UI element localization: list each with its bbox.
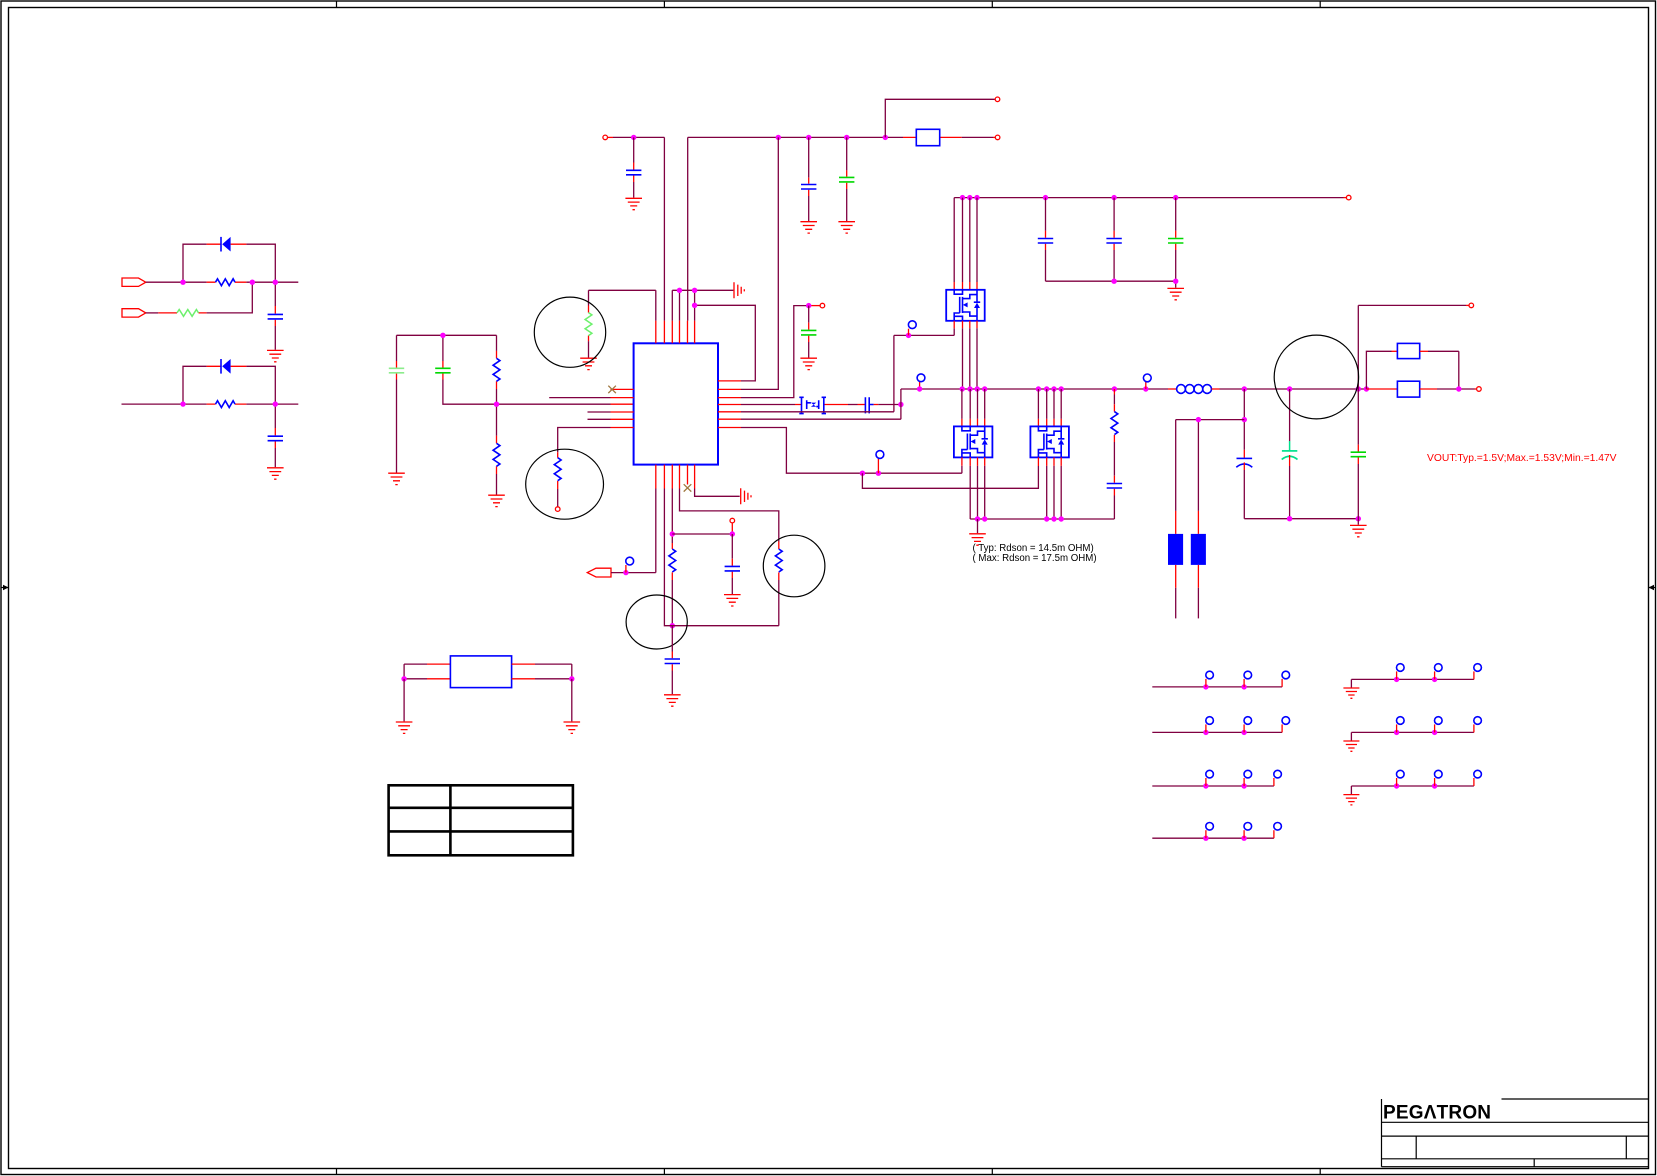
terminal 12V rail (1346, 195, 1351, 200)
wire Q1 gate pin down (953, 321, 955, 329)
wire analog ground run (672, 290, 733, 320)
ground (388, 473, 405, 484)
ground (1167, 288, 1184, 299)
ground (267, 350, 284, 361)
inductor L1 (1177, 385, 1212, 394)
wire tap to bulk caps (1176, 420, 1245, 511)
terminal bypass (820, 303, 825, 308)
wire M1 to C9 (848, 404, 858, 406)
wire diode D2 loop left (183, 366, 207, 404)
ground FB1 right (571, 679, 573, 722)
ground (625, 198, 642, 209)
filter component FB1 box (404, 663, 427, 665)
chassis ground fence top (734, 282, 744, 298)
resistor R12 box (1397, 343, 1419, 358)
testpoint Q1 gate (908, 329, 910, 336)
jumper row L1 (1152, 686, 1282, 688)
resistor R13 box (1366, 388, 1397, 390)
IC U1 top pin stubs (656, 321, 695, 344)
wire COMP loop (664, 489, 778, 626)
capacitor C1 (274, 282, 276, 306)
wire stub pin SS (549, 397, 610, 399)
capacitor C12 (green) (1175, 198, 1177, 231)
revision table (389, 785, 573, 855)
DNI circle around R11 (763, 535, 825, 597)
ground FB1 left (403, 679, 405, 722)
open terminal below R6 (555, 507, 560, 512)
wire output return bus (1244, 518, 1358, 520)
right border center arrow (1649, 587, 1656, 589)
capacitor C15 (671, 626, 673, 652)
wire SW bus to Q2 drains (962, 389, 985, 419)
transistor M1 (series mosfet symbol) (799, 397, 826, 413)
ground (488, 495, 505, 506)
wire arrow to EN pin (611, 489, 656, 573)
ground (664, 695, 681, 706)
snubber resistor R9 (1113, 389, 1115, 395)
jumper row L3 (1152, 785, 1274, 787)
capacitor C11 (1113, 198, 1115, 231)
wire Q3 sources to PGND bus (1047, 457, 1062, 466)
resistor R10 (671, 543, 673, 549)
wire Q1 sources to SW bus (963, 321, 978, 329)
IC U1 right pin stubs (718, 381, 741, 428)
input port connector P2 (122, 309, 146, 317)
IC U1 left pin stubs (611, 389, 634, 427)
wire Q3 gate stub (1037, 457, 1039, 466)
resistor R1 (207, 281, 247, 283)
testpoint SW (919, 382, 921, 389)
wire BOOT pin riser (741, 389, 901, 419)
wire diode D1 loop left (183, 244, 207, 282)
wire stub pin B (588, 418, 611, 420)
terminal VCC rail left (603, 135, 608, 140)
capacitor C9 (series) (865, 397, 873, 413)
resistor R6 in DNI circle (557, 452, 559, 489)
wire R3 node (246, 403, 298, 405)
wire VOUT top feed (1358, 304, 1466, 306)
wire VCC rail left segment (608, 136, 614, 138)
node dots cluster (440, 333, 445, 338)
ground PGND (977, 519, 979, 533)
transistor Q2 (dual mosfet pack) (954, 426, 993, 457)
capacitor C18 (green) (1357, 305, 1359, 444)
diode D2 (207, 365, 247, 367)
wire C9 to SW node (874, 404, 879, 406)
wire 12V rail (954, 197, 1343, 199)
ground (800, 358, 817, 369)
resistor R7 (green) in DNI circle (588, 290, 590, 305)
border zone ticks bottom (337, 1169, 1321, 1175)
resistor R8 box (903, 136, 962, 138)
ground (580, 358, 597, 369)
transistor Q3 (dual mosfet pack) (1030, 426, 1069, 457)
DNI circle around R7 (534, 297, 605, 367)
wire bottom AGND pin to fence (695, 489, 740, 497)
output arrow connector (587, 568, 611, 577)
resistor R3 (207, 403, 247, 405)
capacitor C3 (green) (396, 335, 398, 361)
svg-text:PEGΛTRON: PEGΛTRON (1383, 1103, 1491, 1124)
capacitor C16 (polarized) (1243, 450, 1245, 458)
wire FB branch to terminal and C14 (672, 533, 732, 535)
wire diode D1 loop right (246, 244, 275, 282)
ground output (1350, 525, 1367, 536)
resistor R5 lower (496, 404, 498, 436)
wire R7 to AGND pin (589, 290, 656, 320)
IC U1 bottom pin stubs (656, 465, 695, 489)
capacitor C4 (green) (442, 335, 444, 361)
ground (838, 222, 855, 233)
wire pin694 branch to right pin loop (695, 305, 756, 381)
jumper row R3 (1351, 786, 1474, 794)
node dots row2 (180, 401, 185, 406)
chassis ground fence bottom (741, 488, 751, 504)
resistor R11 in DNI circle (778, 542, 780, 581)
node dots row1 (180, 280, 185, 285)
wire P2 to R2 (146, 312, 159, 314)
border zone ticks top (337, 1, 1321, 8)
SW bus node dots (960, 386, 965, 391)
wire sense resistor upper branch (1366, 351, 1391, 389)
terminal VOUT sense (1477, 387, 1482, 392)
wire VCC filter rail (397, 334, 497, 336)
jumper row R1 (1351, 679, 1474, 687)
wire branch to Q3 gate (862, 466, 1038, 488)
wire Q2 sources to PGND bus (970, 457, 985, 466)
bulk capacitor CB2 (solid) (1197, 511, 1199, 534)
ground (800, 222, 817, 233)
capacitor C2 (274, 404, 276, 428)
diode D1 (207, 243, 247, 245)
jumper row L4 (1152, 837, 1274, 839)
wire sense tap down (1243, 389, 1245, 450)
wire FB pin chain down (671, 489, 673, 544)
wire stub pin A (588, 411, 611, 413)
wire rail to IC pin EN (741, 137, 778, 389)
wire Q2 gate stub (961, 457, 963, 465)
capacitor C5 (633, 137, 635, 162)
wire R8 to terminal (962, 136, 993, 138)
wire LGATE pin down to low gates (741, 428, 962, 474)
capacitor C7 (green) (846, 137, 848, 170)
jumper row R2 (1351, 732, 1474, 740)
DNI circle output (1274, 335, 1358, 419)
wire C4 to feedback node (443, 380, 611, 405)
DNI circle around R10 bottom (626, 595, 687, 649)
wire SW bus to Q3 drains (1038, 389, 1061, 419)
testpoint EN (625, 565, 627, 573)
testpoint low gate (877, 466, 879, 473)
capacitor C14 (731, 534, 733, 559)
wire pin LDO to bypass cap node (741, 306, 809, 398)
input port connector P1 (122, 278, 146, 286)
title block frame (1382, 1099, 1649, 1167)
no-connect X bottom pin (684, 484, 692, 491)
ground (724, 595, 741, 606)
transistor Q1 (dual mosfet pack) (946, 290, 985, 321)
wire input row 2 (122, 403, 207, 405)
wire R1 node (246, 281, 298, 283)
wire R2 up to node (207, 282, 253, 313)
wire OFS pin loop to R11 (680, 489, 779, 542)
capacitor C8 (green) (808, 306, 810, 323)
wire SW bus (901, 388, 1168, 390)
wire HGATE pin to M1 (741, 404, 795, 406)
terminal VOUT top (1469, 303, 1474, 308)
left border center arrow (1, 587, 9, 589)
svg-text:VOUT:Typ.=1.5V;Max.=1.53V;Min.: VOUT:Typ.=1.5V;Max.=1.53V;Min.=1.47V (1427, 453, 1617, 464)
capacitor C10 (1045, 198, 1047, 231)
resistor R4 upper (496, 335, 498, 351)
wire PGND bus (970, 518, 1114, 520)
wire UGATE pin via riser to Q1 gate (741, 335, 954, 411)
jumper row L2 (1152, 731, 1282, 733)
wire pin OCSET to R6 (558, 428, 611, 453)
wire rail to Q1 drains (954, 198, 977, 282)
snubber capacitor C13 (1113, 476, 1115, 496)
ground (267, 468, 284, 479)
no-connect X left pin (608, 386, 616, 393)
wire enable rail right segment (688, 137, 903, 320)
svg-text:( Max: Rdson = 17.5m OHM): ( Max: Rdson = 17.5m OHM) (973, 553, 1097, 564)
DNI circle around R6 (526, 449, 604, 519)
wire branch up to terminal (885, 99, 994, 137)
wire cap return bus (1046, 281, 1176, 288)
node dots ground run (677, 288, 682, 293)
wire VOUT bus (1220, 388, 1367, 390)
capacitor C6 (808, 137, 810, 177)
wire P1 to R1 (146, 281, 207, 283)
IC U1 body (634, 343, 718, 464)
wire diode D2 loop right (246, 366, 275, 404)
resistor R2 (green) (158, 312, 206, 314)
bulk capacitor CB1 (solid) (1175, 511, 1177, 534)
capacitor C17 (polarized green) (1289, 389, 1291, 441)
